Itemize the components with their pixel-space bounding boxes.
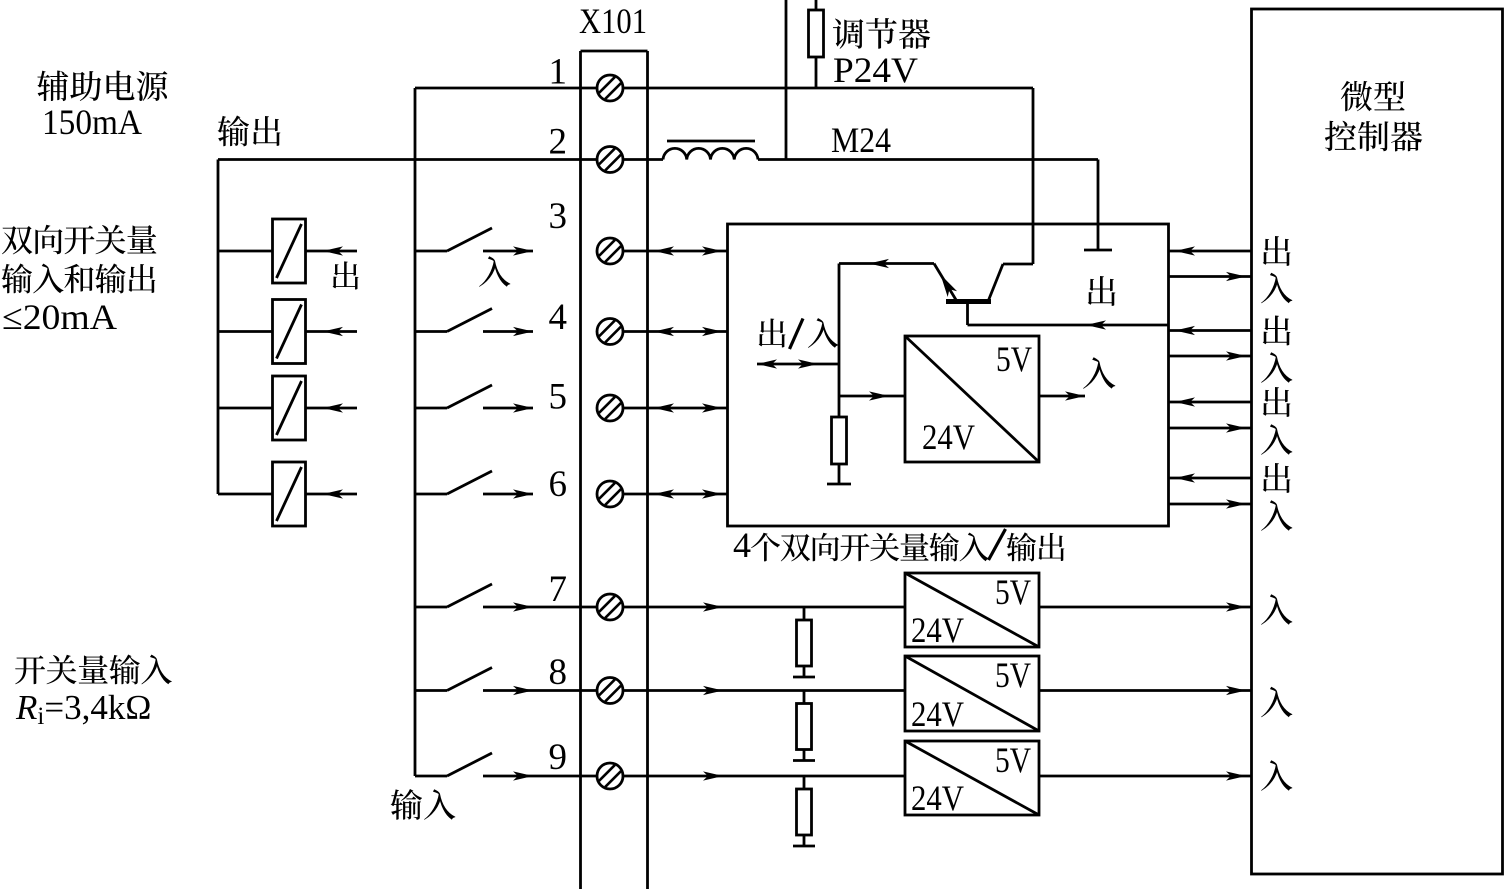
label 输入 (input) bbox=[391, 789, 422, 820]
converter U3 24V/5V bbox=[905, 656, 1039, 731]
wire terminal2 to inductor bbox=[623, 158, 663, 161]
arrow into optocoupler 4 bbox=[306, 493, 358, 496]
svg-text:P24V: P24V bbox=[833, 50, 918, 90]
label 调节器 bbox=[833, 19, 863, 49]
ground bar M24 bbox=[1084, 249, 1112, 252]
arrow out 4 controller to io box bbox=[1169, 477, 1252, 480]
terminal strip X101 bbox=[579, 51, 582, 889]
resistor R7 bbox=[803, 607, 806, 620]
svg-text:X101: X101 bbox=[579, 1, 647, 41]
bidirectional arrow 出/入 bbox=[757, 363, 839, 366]
wire from top to M24 line bbox=[785, 0, 788, 160]
bidirectional arrow terminal 3 to io box bbox=[623, 250, 728, 253]
label 微型 bbox=[1341, 81, 1372, 111]
wire terminal2 to output bus bbox=[218, 158, 597, 161]
switch S8 bbox=[415, 689, 447, 692]
svg-text:≤20mA: ≤20mA bbox=[2, 297, 117, 337]
label 输入和输出 bbox=[2, 263, 32, 293]
terminal 1 bbox=[597, 75, 623, 101]
label 入 1 bbox=[1261, 273, 1292, 304]
wire terminal 8 left bbox=[581, 689, 598, 692]
arrow out 2 controller to io box bbox=[1169, 329, 1252, 332]
svg-text:150mA: 150mA bbox=[42, 102, 142, 142]
optocoupler K4 bbox=[273, 462, 306, 526]
svg-text:9: 9 bbox=[549, 737, 568, 778]
terminal 2 bbox=[597, 147, 623, 173]
converter U2 24V/5V bbox=[905, 573, 1039, 647]
switch S3 bbox=[415, 250, 447, 253]
arrow switch 7 bbox=[483, 606, 581, 609]
svg-text:6: 6 bbox=[549, 464, 568, 505]
svg-text:M24: M24 bbox=[831, 120, 891, 160]
converter U1 24V/5V bbox=[905, 336, 1039, 462]
wire output bus to optocoupler 4 bbox=[218, 493, 273, 496]
terminal 7 bbox=[597, 594, 623, 620]
bidirectional arrow terminal 6 to io box bbox=[623, 493, 728, 496]
switch S9 bbox=[415, 775, 447, 778]
converter U4 24V/5V bbox=[905, 741, 1039, 815]
terminal 6 bbox=[597, 481, 623, 507]
arrow terminal 8 to controller bbox=[1039, 689, 1252, 692]
bidirectional arrow terminal 5 to io box bbox=[623, 407, 728, 410]
label 出 (out) at optocoupler bbox=[333, 261, 359, 289]
label aux supply 辅助电源 bbox=[37, 71, 68, 102]
terminal 5 bbox=[597, 395, 623, 421]
resistor R8 bbox=[803, 691, 806, 704]
arrow in 3 io box to controller bbox=[1169, 427, 1252, 430]
switch S4 bbox=[415, 330, 447, 333]
terminal 9 bbox=[597, 763, 623, 789]
svg-text:1: 1 bbox=[549, 52, 568, 93]
optocoupler K2 bbox=[273, 300, 306, 364]
label 出 3 bbox=[1263, 387, 1291, 417]
label 出 4 bbox=[1263, 463, 1291, 493]
bidirectional arrow terminal 4 to io box bbox=[623, 330, 728, 333]
optocoupler K3 bbox=[273, 376, 306, 440]
svg-text:7: 7 bbox=[549, 569, 568, 610]
arrow switch 9 bbox=[483, 775, 581, 778]
label 出 2 bbox=[1263, 315, 1291, 345]
wire terminal1 right to collector drop bbox=[623, 87, 1033, 90]
wire M24 vertical drop bbox=[1097, 160, 1100, 251]
svg-text:5V: 5V bbox=[995, 572, 1031, 612]
wire M24 line bbox=[758, 158, 1098, 161]
svg-text:5: 5 bbox=[549, 377, 568, 418]
arrow switch 6 bbox=[483, 493, 533, 496]
ground bar R2 bbox=[827, 483, 851, 486]
svg-text:3: 3 bbox=[549, 196, 568, 237]
wire terminal 9 left bbox=[581, 775, 598, 778]
wire terminal1 to input bus bbox=[415, 87, 597, 90]
arrow switch 3 bbox=[483, 250, 533, 253]
arrow terminal 7 to controller bbox=[1039, 606, 1252, 609]
switch S7 bbox=[415, 606, 447, 609]
transistor Q1 emitter wire bbox=[839, 262, 934, 265]
wire collector vertical drop bbox=[1032, 88, 1035, 264]
label 入 at U1 bbox=[1083, 357, 1115, 389]
arrow in 1 io box to controller bbox=[1169, 275, 1252, 278]
arrow in 4 io box to controller bbox=[1169, 503, 1252, 506]
svg-text:24V: 24V bbox=[911, 694, 964, 734]
ground bar R8 bbox=[793, 759, 815, 762]
label 入 row 8 bbox=[1261, 687, 1292, 718]
arrow out 1 controller to io box bbox=[1169, 250, 1252, 253]
svg-text:24V: 24V bbox=[911, 610, 964, 650]
label 入 row 7 bbox=[1261, 594, 1292, 625]
terminal 4 bbox=[597, 319, 623, 345]
arrow switch 5 bbox=[483, 407, 533, 410]
svg-text:8: 8 bbox=[549, 652, 568, 693]
wire terminal 9 to converter bbox=[623, 775, 905, 778]
ground bar R9 bbox=[793, 845, 815, 848]
arrow terminal 9 to controller bbox=[1039, 775, 1252, 778]
svg-text:24V: 24V bbox=[922, 417, 975, 457]
resistor P24V regulator bbox=[815, 0, 818, 10]
arrow into converter U1 bbox=[839, 395, 905, 398]
arrow into optocoupler 3 bbox=[306, 407, 358, 410]
switch S6 bbox=[415, 493, 447, 496]
svg-text:2: 2 bbox=[549, 122, 568, 163]
svg-text:4: 4 bbox=[733, 525, 751, 565]
wire terminal 8 to converter bbox=[623, 689, 905, 692]
svg-text:5V: 5V bbox=[995, 740, 1031, 780]
label 入 row 9 bbox=[1261, 760, 1292, 791]
arrow out 3 controller to io box bbox=[1169, 401, 1252, 404]
terminal 3 bbox=[597, 238, 623, 264]
label 入 4 bbox=[1261, 500, 1292, 531]
terminal 8 bbox=[597, 678, 623, 704]
label 入 2 bbox=[1261, 352, 1292, 383]
resistor R2 bbox=[832, 417, 847, 464]
inductor L1 bbox=[663, 148, 758, 159]
transistor Q1 bbox=[934, 264, 957, 302]
ground bar R7 bbox=[793, 676, 815, 679]
output bus vertical bbox=[217, 160, 220, 495]
wire terminal 7 to converter bbox=[623, 606, 905, 609]
label 出 1 bbox=[1263, 236, 1291, 266]
label 开关量输入 bbox=[15, 656, 45, 685]
label 输出 (output) bbox=[218, 115, 249, 146]
switch S5 bbox=[415, 407, 447, 410]
svg-text:24V: 24V bbox=[911, 778, 964, 818]
arrow out of U1 bbox=[1039, 395, 1085, 398]
transistor base stem bbox=[966, 302, 969, 326]
arrow into optocoupler 1 bbox=[306, 250, 358, 253]
svg-text:Ri=3,4kΩ: Ri=3,4kΩ bbox=[15, 688, 151, 730]
wire output bus to optocoupler 3 bbox=[218, 407, 273, 410]
label 出/入 bbox=[759, 318, 786, 347]
arrow switch 8 bbox=[483, 689, 581, 692]
svg-text:5V: 5V bbox=[995, 655, 1031, 695]
svg-text:5V: 5V bbox=[996, 339, 1032, 379]
label 入 (in) at switch bbox=[479, 256, 510, 287]
input bus vertical bbox=[414, 88, 417, 776]
arrow into optocoupler 2 bbox=[306, 330, 358, 333]
optocoupler K1 bbox=[273, 219, 306, 283]
resistor R9 bbox=[803, 776, 806, 789]
label 双向开关量 bbox=[2, 226, 32, 254]
emitter node vertical bbox=[838, 264, 841, 418]
io box (4 bidirectional I/O) bbox=[728, 224, 1169, 526]
svg-text:4: 4 bbox=[549, 297, 568, 338]
label 出 in io box bbox=[1088, 276, 1116, 306]
label 入 3 bbox=[1261, 424, 1292, 455]
wire output bus to optocoupler 1 bbox=[218, 250, 273, 253]
microcontroller box bbox=[1252, 9, 1503, 874]
wire output bus to optocoupler 2 bbox=[218, 330, 273, 333]
arrow switch 4 bbox=[483, 330, 533, 333]
wire terminal 7 left bbox=[581, 606, 598, 609]
label 控制器 bbox=[1325, 121, 1356, 151]
arrow in 2 io box to controller bbox=[1169, 355, 1252, 358]
wire base to controller side bbox=[968, 324, 1169, 327]
